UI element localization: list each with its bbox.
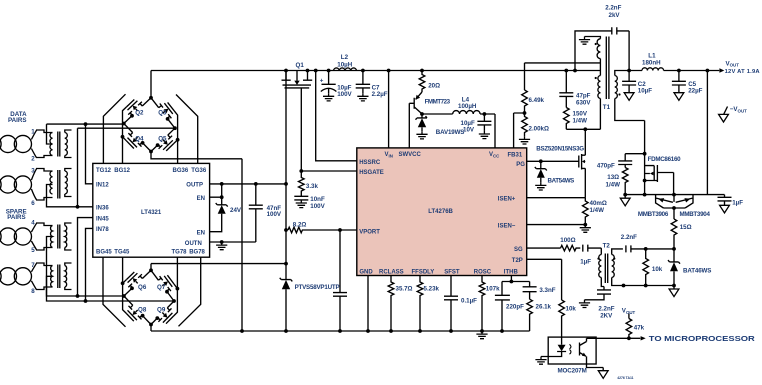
wire negative bus xyxy=(151,263,286,265)
diode BAT46WS xyxy=(668,249,680,264)
svg-text:6.49k: 6.49k xyxy=(529,97,545,104)
wire HSSRC riser xyxy=(316,71,357,161)
svg-text:2.2nF: 2.2nF xyxy=(605,5,621,12)
wire aux bottom to primary xyxy=(599,59,601,76)
capacitor 2.2nF 2KV xyxy=(585,290,612,300)
resistor 26.1k xyxy=(527,299,533,331)
transistor MMBT3904 xyxy=(676,195,693,208)
transistor MMBT3906 xyxy=(656,195,673,208)
wire EN upper xyxy=(210,184,222,205)
wire ITHB compensation branches xyxy=(502,282,530,296)
wire snubber return xyxy=(566,128,600,130)
node rail OUTP riser / Q1 left xyxy=(284,69,288,73)
node BAT46 top xyxy=(672,247,676,251)
svg-text:ITHB: ITHB xyxy=(504,269,519,275)
svg-text:+: + xyxy=(320,77,324,84)
ground under 2.00k xyxy=(519,136,530,144)
LT4276B IC box xyxy=(357,148,527,276)
svg-text:630V: 630V xyxy=(576,99,591,106)
wire IN45 riser xyxy=(78,218,93,296)
capacitor 470pF xyxy=(618,161,632,168)
transistor Q7 xyxy=(151,270,174,301)
svg-text:SFST: SFST xyxy=(444,269,460,275)
node L4 output / 10uF 10V xyxy=(483,112,487,116)
transistor Q4 xyxy=(124,124,151,152)
svg-text:LT4276B: LT4276B xyxy=(428,209,453,215)
node VPORT cap junction xyxy=(338,228,342,232)
transistor Q6 xyxy=(124,270,151,296)
resistor 15ohm xyxy=(671,219,677,249)
svg-text:1: 1 xyxy=(31,129,35,136)
node rail 47nF xyxy=(338,329,342,333)
transistor Q5 xyxy=(151,128,175,151)
wire negative riser v242 xyxy=(241,159,243,331)
node bridge1 bottom xyxy=(149,150,153,154)
capacitor 1uF coupling xyxy=(583,245,602,252)
svg-text:2KV: 2KV xyxy=(600,313,613,320)
pair 3-6 twisted pair icon xyxy=(0,176,1,193)
svg-text:35.7Ω: 35.7Ω xyxy=(396,286,413,293)
LT4321 IC box xyxy=(93,163,210,257)
svg-text:4276 TA11: 4276 TA11 xyxy=(617,376,633,380)
node L2 output / C7 xyxy=(361,69,365,73)
node snubber junction xyxy=(643,152,647,156)
resistor 150V 1/4W xyxy=(564,108,570,130)
wire riser pair36 to bridge right corner xyxy=(78,128,175,207)
svg-text:IN36: IN36 xyxy=(96,206,109,212)
wire IN12 riser xyxy=(86,124,93,184)
wire Q1 gate to HSGATE xyxy=(300,88,302,171)
wire BG78 outer envelope xyxy=(179,257,201,326)
ground rail bottom xyxy=(151,330,530,332)
resistor 13ohm 1/4W xyxy=(622,168,628,195)
wire BG36 gate riser xyxy=(174,111,178,163)
svg-text:Q1: Q1 xyxy=(296,62,305,69)
transistor Q1 xyxy=(282,71,313,88)
svg-text:MMBT3906: MMBT3906 xyxy=(638,211,669,218)
wire T2 secondary top xyxy=(612,249,623,255)
svg-text:Q5: Q5 xyxy=(158,136,167,143)
wire PG xyxy=(527,160,579,162)
capacitor 1uF secondary xyxy=(718,195,732,206)
svg-text:10nF: 10nF xyxy=(310,196,325,203)
svg-text:BAV19WS: BAV19WS xyxy=(436,129,465,136)
node FDMC source at rail xyxy=(643,193,647,197)
svg-text:TG45: TG45 xyxy=(114,250,130,256)
svg-text:PTVS58VP1UTP: PTVS58VP1UTP xyxy=(295,284,340,291)
transformer T1 core xyxy=(606,37,609,100)
svg-text:FDMC86160: FDMC86160 xyxy=(648,156,682,163)
svg-text:PAIRS: PAIRS xyxy=(7,214,25,221)
LED inside optocoupler xyxy=(561,337,563,345)
wire VOUT pullup xyxy=(628,314,630,319)
transformer T-spare2 (pins 7,8) xyxy=(36,263,53,290)
wire aux feedback line xyxy=(525,63,601,90)
svg-text:GND: GND xyxy=(359,269,373,275)
svg-text:ISEN−: ISEN− xyxy=(498,224,516,230)
resistor 20ohm xyxy=(419,71,425,93)
wire T-spare1 center tap to bridge2 left xyxy=(47,237,124,297)
node rail v242 xyxy=(240,329,244,333)
zener 24V xyxy=(216,203,228,207)
capacitor C7 2.2uF xyxy=(356,71,370,94)
wire TG45 gate riser xyxy=(123,257,127,313)
node IN45 riser junction xyxy=(76,294,80,298)
wire TG36 outer envelope xyxy=(176,95,198,164)
wire VIN riser xyxy=(388,71,390,148)
svg-text:2.2nF: 2.2nF xyxy=(621,234,637,241)
node bus-PTVS junction xyxy=(284,262,288,266)
transistor Q9 xyxy=(151,301,174,325)
transistor BSZ520N15NS3G xyxy=(579,129,586,197)
resistor 2.00k xyxy=(522,113,528,136)
svg-text:SWVCC: SWVCC xyxy=(399,152,422,158)
wire TG12 outer envelope xyxy=(103,94,125,163)
node rail PTVS xyxy=(284,329,288,333)
svg-text:24V: 24V xyxy=(230,207,242,214)
node ITHB branch xyxy=(510,280,514,284)
wire OUTP xyxy=(210,183,286,185)
phase dot secondary xyxy=(618,93,620,95)
wire bridge1 bottom to negative bus riser xyxy=(151,152,242,159)
ground at T2 primary xyxy=(579,300,590,308)
wire collector to microprocessor xyxy=(587,337,629,339)
svg-text:FMMT723: FMMT723 xyxy=(425,98,451,105)
svg-text:TO MICROPROCESSOR: TO MICROPROCESSOR xyxy=(649,336,755,343)
wire BG45 outer envelope xyxy=(103,257,126,327)
resistor 40mohm xyxy=(583,198,589,225)
svg-text:2: 2 xyxy=(31,156,35,163)
node bridge1 top xyxy=(149,96,153,100)
svg-text:FFSDLY: FFSDLY xyxy=(412,269,435,275)
transformer T1 primary winding xyxy=(598,76,601,99)
wire main input rail xyxy=(151,70,600,72)
resistor ROSC 107k xyxy=(479,276,485,332)
node ISEN- ground xyxy=(583,223,587,227)
svg-text:10V: 10V xyxy=(463,126,475,133)
svg-text:100V: 100V xyxy=(267,211,282,218)
svg-text:TG12: TG12 xyxy=(96,168,112,174)
node 10k top xyxy=(644,247,648,251)
svg-text:100V: 100V xyxy=(310,203,325,210)
transformer T-spare1 (pins 4,5) xyxy=(36,223,53,250)
svg-text:MMBT3904: MMBT3904 xyxy=(680,211,711,218)
resistor 3.3k xyxy=(298,171,304,193)
svg-text:BG12: BG12 xyxy=(114,168,130,174)
svg-text:VCC: VCC xyxy=(489,152,500,158)
capacitor 10uF 10V xyxy=(477,114,491,131)
node drain riser xyxy=(583,127,587,131)
svg-text:3: 3 xyxy=(31,167,35,174)
capacitor C5 22uF xyxy=(672,71,686,93)
svg-text:26.1k: 26.1k xyxy=(536,304,552,311)
transformer T1 secondary winding xyxy=(615,76,618,99)
svg-text:BAT46WS: BAT46WS xyxy=(683,268,711,275)
svg-text:BSZ520N15NS3G: BSZ520N15NS3G xyxy=(536,145,584,152)
svg-text:2.00kΩ: 2.00kΩ xyxy=(529,125,549,132)
node bridge1 left xyxy=(122,122,126,126)
resistor FFSDLY 5.23k xyxy=(417,276,423,332)
svg-text:4: 4 xyxy=(31,220,35,227)
svg-text:Q7: Q7 xyxy=(157,284,166,291)
inductor L1 180nH xyxy=(642,68,664,71)
capacitor 47nF 100V (VPORT) xyxy=(333,230,347,331)
node 8.2 ohm junction xyxy=(284,228,288,232)
svg-text:107k: 107k xyxy=(486,286,500,293)
wire T2 primary bottom xyxy=(601,278,604,290)
node bridge2 right xyxy=(172,299,176,303)
wire HSGATE xyxy=(301,170,357,172)
transformer T-data2 (pins 3,6) xyxy=(36,169,53,201)
wire bridge2 bottom to ground rail xyxy=(150,325,152,332)
phase dot T2 primary xyxy=(597,258,599,260)
node OUTP zener junction xyxy=(220,182,224,186)
svg-text:10µF: 10µF xyxy=(638,87,652,94)
svg-text:L2: L2 xyxy=(341,54,349,61)
node EN xyxy=(220,195,224,199)
node rail 47pF xyxy=(564,69,568,73)
node HSGATE junction xyxy=(299,169,303,173)
node FMMT emitter output xyxy=(420,112,424,116)
svg-text:EN: EN xyxy=(197,231,205,237)
node bridge1 right xyxy=(173,126,177,130)
wire ISEN- xyxy=(527,224,586,226)
svg-text:1µF: 1µF xyxy=(732,200,743,207)
svg-text:10µH: 10µH xyxy=(337,61,352,68)
node OUTP riser junction xyxy=(284,182,288,186)
svg-text:100µH: 100µH xyxy=(458,103,477,110)
wire T2P xyxy=(527,259,562,300)
svg-text:10k: 10k xyxy=(652,266,663,273)
svg-text:5: 5 xyxy=(31,247,35,254)
resistor 10k opto xyxy=(559,300,565,337)
diode BAV19WS xyxy=(416,114,428,120)
node microprocessor xyxy=(627,336,631,340)
svg-text:RCLASS: RCLASS xyxy=(379,269,404,275)
node PG diode xyxy=(539,159,543,163)
phase dot T2 secondary xyxy=(613,258,615,260)
ground under 10nF xyxy=(296,200,307,208)
node C5 xyxy=(677,69,681,73)
svg-text:6: 6 xyxy=(31,200,35,207)
capacitor 47pF 630V xyxy=(559,71,573,108)
svg-text:TG36: TG36 xyxy=(191,168,207,174)
transistor Q2 xyxy=(124,98,151,124)
transformer T2 secondary xyxy=(612,255,615,278)
arrow to microprocessor xyxy=(629,337,640,339)
wire ITHB stub xyxy=(510,276,512,282)
wire primary bottom xyxy=(599,99,601,130)
transformer T2 core xyxy=(605,254,607,284)
svg-text:VPORT: VPORT xyxy=(359,229,380,235)
svg-text:T2: T2 xyxy=(603,243,611,250)
wire T2 secondary bottom xyxy=(612,278,674,286)
resistor 100ohm xyxy=(527,245,581,251)
capacitor 10uF 100V electrolytic xyxy=(321,71,337,92)
svg-text:PG: PG xyxy=(516,162,525,168)
svg-text:220pF: 220pF xyxy=(506,304,524,311)
svg-text:Q6: Q6 xyxy=(138,284,147,291)
wire bridge2 top riser to bus xyxy=(150,264,152,271)
svg-text:22µF: 22µF xyxy=(688,87,702,94)
svg-text:20Ω: 20Ω xyxy=(428,82,440,89)
svg-text:3.3nF: 3.3nF xyxy=(539,287,555,294)
transformer T1 aux winding xyxy=(597,39,600,59)
node bridge2 top xyxy=(149,268,153,272)
svg-text:2.2µF: 2.2µF xyxy=(372,91,388,98)
wire node rail IN12/bridge left xyxy=(47,123,124,125)
ground at ROSC rail xyxy=(476,331,487,339)
node rail Y-cap xyxy=(573,69,577,73)
svg-text:BG78: BG78 xyxy=(189,250,205,256)
svg-text:1/4W: 1/4W xyxy=(573,117,588,124)
svg-text:8: 8 xyxy=(31,288,35,295)
svg-text:40mΩ: 40mΩ xyxy=(590,200,607,207)
svg-text:5.23k: 5.23k xyxy=(424,286,440,293)
svg-text:Q9: Q9 xyxy=(157,306,166,313)
symbol -VOUT xyxy=(724,107,728,115)
node IN12 junction xyxy=(84,122,88,126)
arrow VOUT xyxy=(719,68,724,72)
TVS PTVS58VP1UTP xyxy=(280,278,293,282)
wire secondary bottom to rectifier xyxy=(615,99,645,195)
capacitor 2.2nF 2kV Y-cap xyxy=(575,27,629,70)
svg-text:VIN: VIN xyxy=(385,152,393,158)
wire output rail to VOUT xyxy=(664,70,720,72)
node +12V riser xyxy=(706,69,710,73)
wire T-data1 center tap to rail xyxy=(47,124,53,144)
svg-text:ROSC: ROSC xyxy=(474,269,492,275)
phase dot aux xyxy=(595,43,597,45)
svg-text:BG45: BG45 xyxy=(96,250,112,256)
svg-text:OUTN: OUTN xyxy=(185,241,202,247)
svg-text:MOC207M: MOC207M xyxy=(558,367,587,374)
ground at aux winding xyxy=(579,37,590,45)
wire IN78 riser xyxy=(86,228,93,301)
wire +12V riser down xyxy=(706,71,708,195)
transformer T-data1 (pins 1,2) xyxy=(36,130,53,158)
node bridge2 bottom xyxy=(149,323,153,327)
resistor 10k secondary xyxy=(643,249,649,286)
svg-text:LT4321: LT4321 xyxy=(141,210,162,216)
resistor 6.49k xyxy=(522,90,528,113)
svg-text:TG78: TG78 xyxy=(172,250,188,256)
svg-text:3.3k: 3.3k xyxy=(306,183,319,190)
svg-text:1/4W: 1/4W xyxy=(606,182,621,189)
svg-text:8.2Ω: 8.2Ω xyxy=(293,221,307,228)
capacitor 220pF xyxy=(495,295,510,331)
transformer T2 primary xyxy=(600,248,602,254)
svg-text:10k: 10k xyxy=(566,306,577,313)
svg-text:47k: 47k xyxy=(634,324,645,331)
wire to VCC xyxy=(480,114,495,148)
transistor FMMT723 xyxy=(409,92,422,148)
capacitor 3.3nF xyxy=(523,287,537,299)
symbol secondary return left xyxy=(624,195,626,199)
pair 4-5 twisted pair icon xyxy=(0,228,1,245)
svg-text:PAIRS: PAIRS xyxy=(8,117,26,124)
svg-text:ISEN+: ISEN+ xyxy=(498,197,516,203)
capacitor 47nF 100V (OUTP-OUTN) xyxy=(249,184,263,242)
svg-text:FB31: FB31 xyxy=(508,152,523,158)
svg-text:7: 7 xyxy=(31,262,35,269)
node output rail C2 xyxy=(627,69,631,73)
wire secondary return rail xyxy=(625,194,724,196)
capacitor 10nF 100V xyxy=(294,193,308,200)
phase dot primary xyxy=(595,77,597,79)
wire T-data2 center tap to IN36 xyxy=(47,185,93,207)
wire TG78 gate riser xyxy=(174,257,178,316)
svg-text:OUTP: OUTP xyxy=(186,183,203,189)
svg-text:Q2: Q2 xyxy=(135,109,144,116)
svg-text:IN78: IN78 xyxy=(96,227,109,233)
svg-text:470pF: 470pF xyxy=(597,163,615,170)
ground at OUTN xyxy=(216,242,227,250)
wire bridge1 top riser to rail xyxy=(150,71,152,98)
diode BAT54WS xyxy=(535,161,547,170)
transistor Q8 xyxy=(124,296,151,325)
wire emitter bar xyxy=(664,195,686,219)
svg-text:13Ω: 13Ω xyxy=(607,174,619,181)
node secondary return rail left xyxy=(623,193,627,197)
wire OUTP riser v286 xyxy=(285,71,287,280)
resistor 8.2ohm xyxy=(288,227,357,233)
wire secondary top to output rail xyxy=(615,71,642,76)
transistor Q3 xyxy=(151,98,175,128)
svg-text:15Ω: 15Ω xyxy=(680,224,692,231)
svg-text:HSSRC: HSSRC xyxy=(359,160,381,166)
wire BG12 gate riser xyxy=(123,107,127,163)
svg-text:Q4: Q4 xyxy=(135,136,144,143)
svg-text:Q8: Q8 xyxy=(138,306,147,313)
node FDMC drain at rail xyxy=(672,193,676,197)
svg-text:IN12: IN12 xyxy=(96,183,109,189)
svg-text:100Ω: 100Ω xyxy=(560,237,575,244)
resistor RCLASS 35.7ohm xyxy=(388,276,394,332)
optocoupler MOC207M box xyxy=(548,337,596,364)
transistor FDMC86160 xyxy=(645,165,674,195)
svg-text:BG36: BG36 xyxy=(173,168,189,174)
node IN36/bridge riser junction xyxy=(76,205,80,209)
capacitor 2.2nF secondary xyxy=(626,245,674,252)
svg-text:1/4W: 1/4W xyxy=(590,207,605,214)
svg-text:SG: SG xyxy=(514,247,523,253)
node L2 input / electrolytic xyxy=(327,69,331,73)
wire GND pin stub xyxy=(367,276,369,332)
wire ISEN+ xyxy=(527,197,586,199)
svg-text:180nH: 180nH xyxy=(642,59,661,66)
node IN78 riser junction xyxy=(84,299,88,303)
node FB31 divider xyxy=(523,111,527,115)
light arrows xyxy=(570,344,572,354)
wire OUTN xyxy=(210,241,256,243)
svg-text:EN: EN xyxy=(197,196,205,202)
svg-text:0.1µF: 0.1µF xyxy=(461,298,477,305)
node OUTN ground junction xyxy=(220,240,224,244)
inductor L4 100uH xyxy=(453,111,480,114)
svg-text:12V AT 1.9A: 12V AT 1.9A xyxy=(725,69,761,75)
svg-text:2kV: 2kV xyxy=(609,12,621,19)
wire T-spare2 center tap to bridge2 right xyxy=(47,276,175,301)
pair 7-8 twisted pair icon xyxy=(0,268,1,285)
wire snubber branch xyxy=(625,154,644,161)
node bridge2 left xyxy=(122,294,126,298)
svg-text:T2P: T2P xyxy=(512,258,523,264)
svg-text:1µF: 1µF xyxy=(580,259,591,266)
svg-text:100V: 100V xyxy=(337,91,352,98)
symbol secondary return T2 xyxy=(673,286,675,290)
svg-text:BAT54WS: BAT54WS xyxy=(548,178,575,185)
